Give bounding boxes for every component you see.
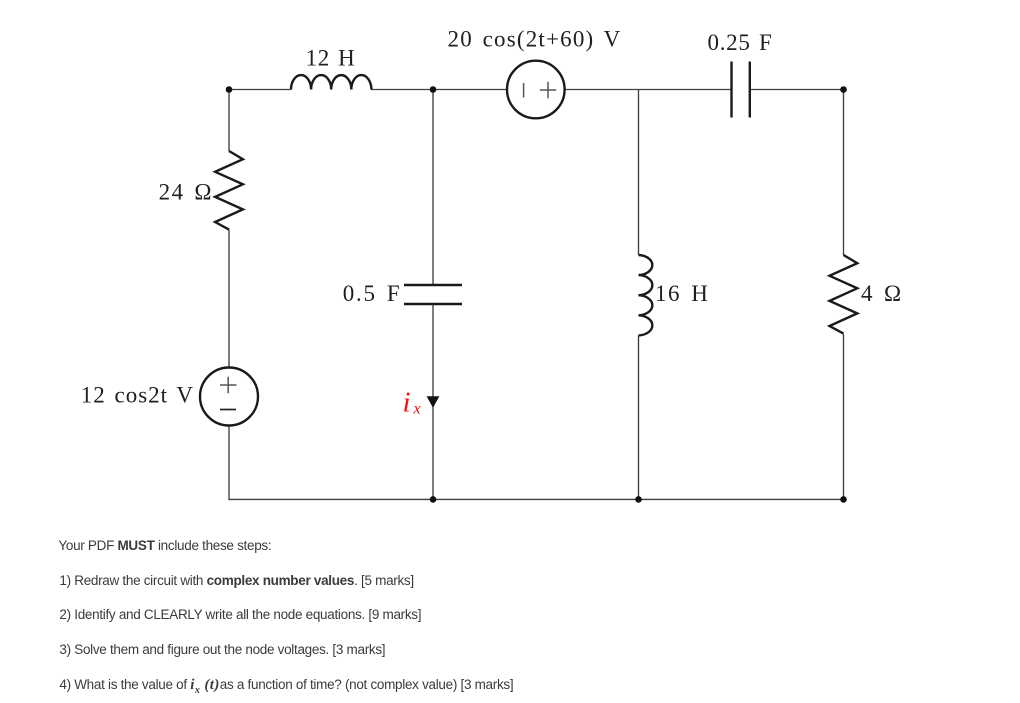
VS2 minus bar (vertical) <box>523 83 525 98</box>
wire middle rail upper <box>432 90 434 286</box>
svg-text:x: x <box>413 401 421 418</box>
VS1 plus sign <box>220 377 237 393</box>
VS2 plus sign <box>540 82 557 98</box>
node dot top right <box>840 86 847 93</box>
node dot bottom right <box>840 496 847 503</box>
instruction line 1 <box>58 538 271 553</box>
svg-text:24 Ω: 24 Ω <box>159 180 213 205</box>
wire top rail right segment <box>750 89 844 91</box>
svg-text:0.25 F: 0.25 F <box>708 30 773 55</box>
svg-text:12 H: 12 H <box>306 46 356 71</box>
wire left rail middle <box>228 230 230 368</box>
instruction line 4 <box>59 642 385 657</box>
svg-text:i: i <box>403 387 411 419</box>
instruction line 5 <box>59 677 513 696</box>
instruction line 2 <box>59 573 413 588</box>
capacitor C2 0.25 F plates <box>732 62 750 118</box>
capacitor C1 0.5 F plates <box>404 285 462 304</box>
svg-text:4 Ω: 4 Ω <box>861 281 903 306</box>
node dot bottom third <box>635 496 642 503</box>
wire top rail left segment <box>229 89 291 91</box>
wire top rail between inductor and source <box>371 89 507 91</box>
svg-text:12 cos2t V: 12 cos2t V <box>81 383 194 408</box>
wire left rail lower <box>228 426 230 501</box>
wire left rail upper <box>228 90 230 152</box>
resistor R2 4 ohm zigzag <box>830 255 858 334</box>
wire right rail upper <box>843 90 845 256</box>
inductor L1 12 H <box>291 75 371 89</box>
instruction line 3 <box>59 607 421 622</box>
VS1 minus sign <box>220 409 236 411</box>
current arrow ix head <box>427 396 440 408</box>
inductor L2 16 H <box>639 255 653 335</box>
resistor R1 24 ohm zigzag <box>215 151 243 230</box>
wire middle rail lower <box>432 304 434 500</box>
wire third rail lower <box>638 336 640 501</box>
node dot top middle <box>430 86 437 93</box>
svg-text:16 H: 16 H <box>655 281 709 306</box>
voltage source VS2 20cos(2t+60)V circle <box>507 61 565 119</box>
wire top rail between source and capacitor <box>565 89 732 91</box>
wire third rail upper <box>638 90 640 256</box>
node dot top-left <box>226 86 233 93</box>
node dot bottom middle <box>430 496 437 503</box>
wire bottom rail <box>229 498 844 500</box>
voltage source VS1 12cos2t V circle <box>200 368 258 426</box>
svg-text:20 cos(2t+60) V: 20 cos(2t+60) V <box>448 27 622 52</box>
wire right rail lower <box>843 334 845 500</box>
svg-text:0.5 F: 0.5 F <box>343 281 402 306</box>
